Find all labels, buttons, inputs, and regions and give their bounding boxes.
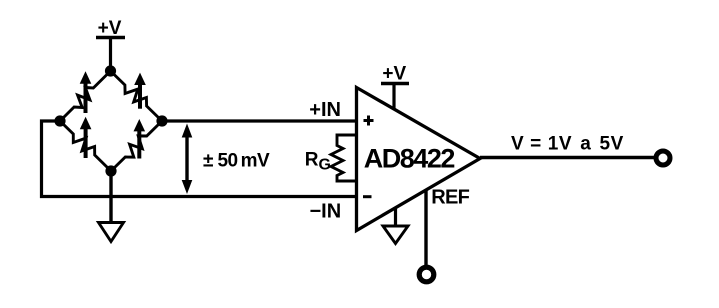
wire REF pin down to terminal <box>424 190 427 266</box>
resistor (strain gauge) top-right bridge arm <box>111 71 163 121</box>
wire bridge bottom node to ground <box>109 171 112 223</box>
wire amp bottom edge to ground <box>394 207 397 226</box>
arrow on bottom-right gauge <box>134 119 146 159</box>
supply +V (bridge) bar <box>96 36 125 39</box>
supply +V (amp) bar <box>381 82 409 85</box>
node bridge left (junction dot) <box>54 115 65 126</box>
resistor (strain gauge) bottom-left bridge arm <box>60 121 111 171</box>
svg-text:± 50 mV: ± 50 mV <box>203 151 270 172</box>
svg-text:AD8422: AD8422 <box>364 144 455 174</box>
node bridge bottom (junction dot) <box>105 165 116 176</box>
resistor (strain gauge) bottom-right bridge arm <box>111 121 162 171</box>
ground (amp) <box>383 226 408 244</box>
resistor RG (gain resistor) <box>331 135 356 181</box>
wire output <box>480 156 654 159</box>
arrow on top-left gauge <box>80 71 92 113</box>
svg-text:+V: +V <box>98 18 122 39</box>
svg-text:V = 1V a 5V: V = 1V a 5V <box>511 133 624 154</box>
measurement arrow ±50mV (double-headed) <box>182 124 193 195</box>
wire right node to +IN rail <box>162 119 357 122</box>
ground (bridge) <box>99 223 124 242</box>
svg-text:REF: REF <box>431 187 469 209</box>
svg-text:+V: +V <box>382 64 406 85</box>
wire +V bar to bridge top node <box>109 38 112 72</box>
wire +V bar to amp top edge <box>392 84 395 111</box>
terminal output (open circle) <box>656 151 670 165</box>
svg-text:−IN: −IN <box>310 200 342 222</box>
node bridge right (junction dot) <box>156 115 167 126</box>
wire left node to bottom rail (-IN) <box>42 121 358 197</box>
resistor (strain gauge) top-left bridge arm <box>60 71 111 121</box>
plus input marker <box>364 116 374 126</box>
svg-text:+IN: +IN <box>309 99 341 121</box>
arrow on bottom-left gauge <box>80 117 92 158</box>
node bridge top (junction dot) <box>105 65 116 76</box>
terminal REF (open circle) <box>419 267 434 282</box>
op-amp U1 AD8422 triangle <box>357 88 481 231</box>
arrow on top-right gauge <box>134 73 146 109</box>
minus input marker <box>363 195 372 198</box>
